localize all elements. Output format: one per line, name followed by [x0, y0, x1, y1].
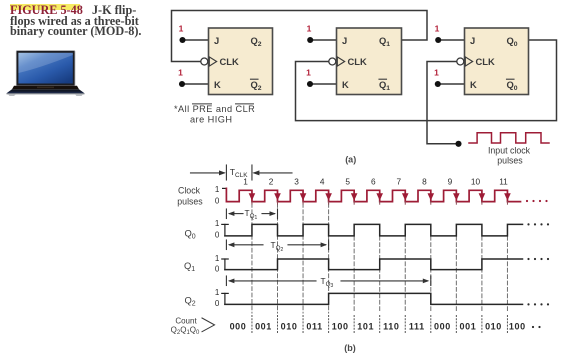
node: J1 dot	[179, 37, 185, 43]
svg-text:are HIGH: are HIGH	[190, 114, 232, 124]
svg-text:TQ3: TQ3	[321, 276, 334, 289]
svg-text:Q2Q1Q0: Q2Q1Q0	[171, 325, 200, 336]
wire: K input of U2	[310, 83, 337, 85]
dotted count separators	[252, 316, 508, 335]
svg-text:Clock: Clock	[178, 185, 201, 195]
label: Clock pulses	[177, 185, 203, 206]
node: J2 dot	[307, 37, 313, 43]
svg-text:Q0: Q0	[185, 227, 196, 240]
svg-text:CLK: CLK	[348, 56, 367, 67]
svg-text:pulses: pulses	[177, 196, 203, 206]
svg-text:100: 100	[509, 321, 526, 331]
Q2 axis labels	[215, 288, 220, 308]
svg-text:001: 001	[459, 321, 476, 331]
svg-text:110: 110	[383, 321, 399, 331]
wire: J input of U3	[438, 39, 465, 41]
svg-text:1: 1	[215, 185, 220, 194]
svg-text:011: 011	[306, 321, 322, 331]
count angle bracket	[202, 318, 215, 332]
Q0 trailing dots	[527, 223, 549, 225]
svg-text:Q1: Q1	[184, 260, 195, 273]
clock trailing dots	[526, 200, 548, 202]
svg-text:1: 1	[215, 254, 220, 263]
svg-text:5: 5	[345, 176, 350, 186]
Q0 waveform	[225, 224, 523, 236]
svg-text:CLK: CLK	[220, 56, 239, 67]
svg-text:K: K	[470, 79, 477, 90]
svg-text:100: 100	[332, 321, 349, 331]
svg-text:001: 001	[255, 321, 272, 331]
node: K1 dot	[179, 81, 185, 87]
svg-text:1: 1	[434, 68, 439, 78]
Q0 axis bracket	[222, 224, 228, 236]
svg-text:2: 2	[269, 176, 274, 186]
note: All PRE and CLR are HIGH	[174, 104, 255, 124]
svg-text:000: 000	[434, 321, 451, 331]
svg-text:1: 1	[179, 23, 184, 33]
svg-text:J: J	[214, 35, 219, 46]
label: Input clock pulses	[488, 146, 531, 166]
svg-text:0: 0	[215, 196, 220, 205]
clock falling-edge arrows	[249, 193, 511, 200]
Q1 axis labels	[215, 254, 220, 274]
label: Count Q2Q1Q0	[171, 317, 200, 337]
svg-text:(a): (a)	[345, 155, 356, 165]
caption highlight	[10, 4, 80, 10]
clock falling-edge stubs	[252, 202, 508, 205]
node: J3 dot	[435, 37, 441, 43]
svg-text:111: 111	[409, 321, 425, 331]
svg-text:3: 3	[294, 176, 299, 186]
svg-text:1: 1	[243, 176, 248, 186]
TQ3 marker	[226, 276, 430, 286]
svg-text:0: 0	[215, 231, 220, 240]
svg-text:10: 10	[471, 176, 481, 186]
wire: Q0 output to CLK of U2 (bottom loop)	[296, 40, 557, 121]
svg-text:CLK: CLK	[476, 56, 495, 67]
clock waveform	[226, 188, 520, 201]
svg-text:010: 010	[485, 321, 502, 331]
Q0 axis labels	[215, 219, 220, 240]
count trailing dots	[532, 326, 541, 328]
count values	[230, 321, 526, 331]
TCLK marker	[191, 165, 293, 180]
svg-text:TQ2: TQ2	[271, 240, 284, 253]
svg-text:1: 1	[215, 288, 220, 297]
svg-text:TQ1: TQ1	[245, 208, 258, 221]
TQ2 marker	[226, 240, 328, 250]
input clock pulses symbol	[469, 133, 549, 143]
svg-text:6: 6	[371, 176, 376, 186]
wire: K input of U3	[438, 83, 465, 85]
wire: K input of U1	[182, 83, 209, 85]
svg-text:Count: Count	[175, 317, 197, 326]
Q2 waveform	[225, 293, 523, 304]
wire: J input of U1	[182, 39, 209, 41]
svg-text:Input clock: Input clock	[488, 146, 531, 156]
Q1 waveform	[225, 259, 523, 270]
Q1 trailing dots	[527, 258, 549, 260]
svg-text:1: 1	[435, 23, 440, 33]
figure caption	[10, 5, 160, 37]
svg-text:000: 000	[230, 321, 247, 331]
clock axis labels 1/0	[215, 185, 220, 205]
wire: J input of U2	[310, 39, 337, 41]
clock pulse numbers	[243, 176, 508, 186]
svg-text:1: 1	[307, 23, 312, 33]
svg-text:1: 1	[306, 68, 311, 78]
wire: Q1 output to CLK of U1 (top loop)	[172, 11, 428, 62]
svg-text:K: K	[214, 79, 221, 90]
svg-text:11: 11	[499, 176, 508, 186]
svg-text:4: 4	[320, 176, 325, 186]
clock axis tick	[223, 187, 227, 189]
svg-text:8: 8	[422, 176, 427, 186]
svg-text:*All PRE and CLR: *All PRE and CLR	[174, 104, 255, 114]
svg-text:1: 1	[215, 219, 220, 228]
svg-text:J: J	[470, 35, 475, 46]
wire: input clock to CLK of U3	[427, 62, 458, 144]
svg-text:Q2: Q2	[185, 294, 196, 307]
dashed clock-edge lines	[252, 204, 508, 314]
laptop icon	[6, 46, 98, 100]
svg-text:101: 101	[357, 321, 374, 331]
Q2 trailing dots	[527, 303, 549, 305]
node: K2 dot	[307, 81, 313, 87]
Q1 axis bracket	[222, 259, 228, 270]
svg-text:7: 7	[396, 176, 401, 186]
svg-text:J: J	[342, 35, 347, 46]
svg-text:9: 9	[448, 176, 453, 186]
svg-text:0: 0	[215, 264, 220, 273]
Q2 axis bracket	[222, 293, 228, 304]
flip-flop U2 (Q1)	[329, 28, 402, 95]
TQ1 marker	[226, 209, 277, 219]
svg-text:010: 010	[281, 321, 298, 331]
svg-text:pulses: pulses	[497, 156, 523, 166]
svg-text:0: 0	[215, 299, 220, 308]
svg-text:1: 1	[178, 68, 183, 78]
node: input clock dot	[455, 141, 461, 147]
node: K3 dot	[435, 81, 441, 87]
flip-flop U1 (Q2)	[201, 28, 273, 95]
svg-text:K: K	[342, 79, 349, 90]
svg-text:(b): (b)	[344, 343, 356, 353]
flip-flop U3 (Q0)	[457, 28, 529, 95]
